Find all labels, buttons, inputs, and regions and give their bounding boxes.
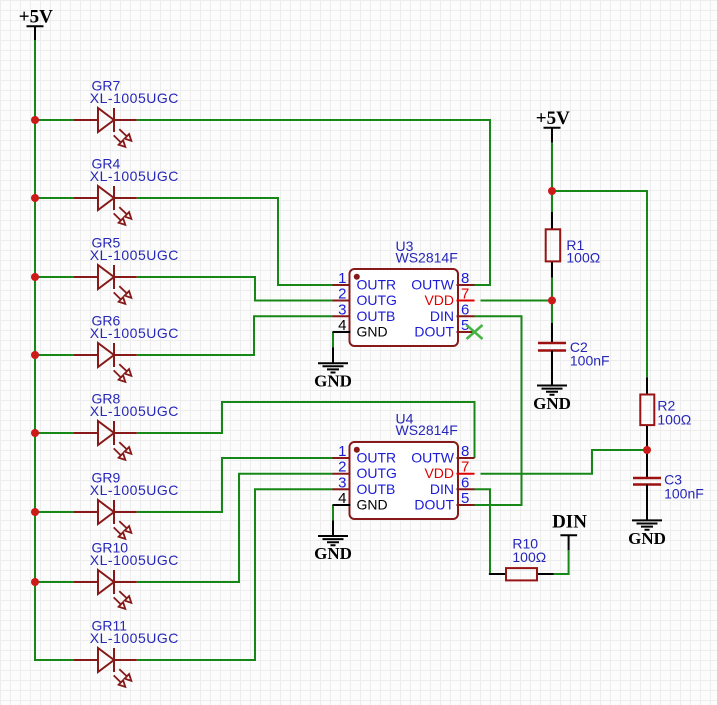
- svg-text:GND: GND: [314, 544, 352, 563]
- junction GR8: [31, 429, 39, 437]
- junction GR5: [31, 273, 39, 281]
- port DIN: [552, 511, 587, 550]
- svg-text:DOUT: DOUT: [414, 497, 454, 513]
- wire anode GR6: [35, 354, 74, 356]
- svg-text:6: 6: [461, 301, 469, 318]
- resistor R1: [546, 212, 601, 278]
- junction VDD node: [548, 297, 556, 305]
- LED GR5: [74, 234, 179, 304]
- svg-text:5: 5: [461, 490, 469, 507]
- svg-text:DIN: DIN: [552, 511, 587, 532]
- svg-text:8: 8: [461, 443, 469, 460]
- power flag +5V (top left): [19, 7, 53, 41]
- resistor R10: [489, 536, 554, 581]
- wire U4 pin 4 to ground: [332, 505, 334, 521]
- junction GR9: [31, 508, 39, 516]
- wire U3 pin 4 to ground: [332, 332, 334, 347]
- wire GR4 cathode to U3 pin 1: [137, 198, 333, 285]
- ground (below C3): [628, 520, 666, 548]
- wire GR5 cathode to U3 pin 2: [137, 277, 333, 301]
- svg-text:GND: GND: [533, 394, 571, 413]
- junction GR6: [31, 351, 39, 359]
- svg-text:XL-1005UGC: XL-1005UGC: [90, 403, 179, 419]
- resistor R2: [640, 377, 691, 450]
- LED GR7: [74, 77, 179, 147]
- svg-text:1: 1: [338, 443, 346, 460]
- no-connect X on U3 pin 5: [467, 325, 483, 339]
- svg-text:1: 1: [338, 270, 346, 287]
- wire GR10 cathode to U4 pin 2: [137, 474, 333, 582]
- svg-text:6: 6: [461, 474, 469, 491]
- svg-text:100Ω: 100Ω: [566, 250, 600, 266]
- ground (below C2): [533, 386, 571, 414]
- wire GR6 cathode to U3 pin 3: [137, 316, 333, 355]
- svg-text:4: 4: [338, 490, 346, 507]
- LED GR11: [74, 617, 179, 687]
- wire anode GR5: [35, 276, 74, 278]
- svg-text:7: 7: [461, 459, 469, 476]
- wire anode GR7: [35, 119, 74, 121]
- svg-text:XL-1005UGC: XL-1005UGC: [90, 168, 179, 184]
- svg-text:XL-1005UGC: XL-1005UGC: [90, 247, 179, 263]
- svg-text:OUTR: OUTR: [357, 450, 397, 466]
- svg-text:OUTG: OUTG: [357, 292, 397, 308]
- wire GR9 cathode to U4 pin 1: [137, 458, 333, 512]
- svg-text:XL-1005UGC: XL-1005UGC: [90, 482, 179, 498]
- svg-text:DIN: DIN: [430, 481, 454, 497]
- wire GR11 cathode to U4 pin 3: [137, 489, 333, 660]
- IC U3 WS2814F: [333, 238, 475, 346]
- svg-text:+5V: +5V: [19, 7, 53, 28]
- svg-text:100nF: 100nF: [664, 485, 704, 501]
- wire node VDD to U3 pin 7: [481, 300, 553, 302]
- svg-text:GND: GND: [357, 324, 388, 340]
- svg-text:OUTB: OUTB: [357, 308, 396, 324]
- wire +5V branch to R2: [552, 191, 647, 377]
- svg-text:XL-1005UGC: XL-1005UGC: [90, 90, 179, 106]
- junction +5V branch: [548, 187, 556, 195]
- svg-text:OUTW: OUTW: [411, 277, 455, 293]
- wire R1 to node VDD: [551, 278, 553, 301]
- wire GR7 cathode to U3 pin 8: [137, 120, 490, 285]
- wire anode GR9: [35, 511, 74, 513]
- ground (below U4): [314, 521, 352, 564]
- capacitor C3: [633, 450, 704, 520]
- wire anode GR10: [35, 581, 74, 583]
- wire node to C2: [551, 301, 553, 323]
- wire DIN port to R10: [554, 550, 569, 574]
- svg-text:4: 4: [338, 317, 346, 334]
- junction GR7: [31, 116, 39, 124]
- svg-text:XL-1005UGC: XL-1005UGC: [90, 325, 179, 341]
- svg-text:2: 2: [338, 459, 346, 476]
- junction R2/C3 node: [643, 446, 651, 454]
- wire U4 pin 6 DIN to R10: [475, 489, 491, 574]
- svg-text:2: 2: [338, 286, 346, 303]
- svg-text:XL-1005UGC: XL-1005UGC: [90, 630, 179, 646]
- LED GR8: [74, 390, 179, 460]
- svg-text:8: 8: [461, 270, 469, 287]
- LED GR10: [74, 539, 179, 609]
- svg-text:100nF: 100nF: [570, 353, 610, 369]
- wire +5V left rail: [35, 40, 74, 660]
- svg-text:GND: GND: [357, 497, 388, 513]
- svg-text:WS2814F: WS2814F: [396, 422, 458, 438]
- svg-text:GND: GND: [628, 529, 666, 548]
- LED GR6: [74, 312, 179, 382]
- svg-text:3: 3: [338, 301, 346, 318]
- svg-text:VDD: VDD: [424, 465, 454, 481]
- svg-text:XL-1005UGC: XL-1005UGC: [90, 552, 179, 568]
- svg-text:3: 3: [338, 474, 346, 491]
- svg-text:VDD: VDD: [424, 292, 454, 308]
- svg-text:+5V: +5V: [536, 108, 570, 129]
- wire anode GR4: [35, 197, 74, 199]
- wire U4 pin 7 VDD to R2/C3 node: [481, 450, 648, 474]
- svg-text:100Ω: 100Ω: [657, 412, 691, 428]
- svg-text:OUTB: OUTB: [357, 481, 396, 497]
- svg-text:OUTG: OUTG: [357, 465, 397, 481]
- svg-text:OUTW: OUTW: [411, 450, 455, 466]
- svg-text:OUTR: OUTR: [357, 277, 397, 293]
- wire +5V right to R1: [551, 143, 553, 212]
- svg-text:100Ω: 100Ω: [512, 549, 546, 565]
- ground (below U3): [314, 347, 352, 390]
- LED GR4: [74, 155, 179, 225]
- svg-text:7: 7: [461, 286, 469, 303]
- power flag +5V (top right): [536, 108, 570, 143]
- svg-text:GND: GND: [314, 371, 352, 390]
- svg-text:WS2814F: WS2814F: [396, 249, 458, 265]
- LED GR9: [74, 469, 179, 539]
- wire U4 pin 5 DOUT to U3 pin 6 DIN: [475, 316, 522, 505]
- capacitor C2: [538, 323, 610, 386]
- svg-text:DIN: DIN: [430, 308, 454, 324]
- wire GR8 cathode to U4 pin 8: [137, 402, 475, 458]
- wire anode GR8: [35, 432, 74, 434]
- junction GR4: [31, 194, 39, 202]
- junction GR10: [31, 578, 39, 586]
- svg-text:DOUT: DOUT: [414, 324, 454, 340]
- IC U4 WS2814F: [333, 411, 475, 519]
